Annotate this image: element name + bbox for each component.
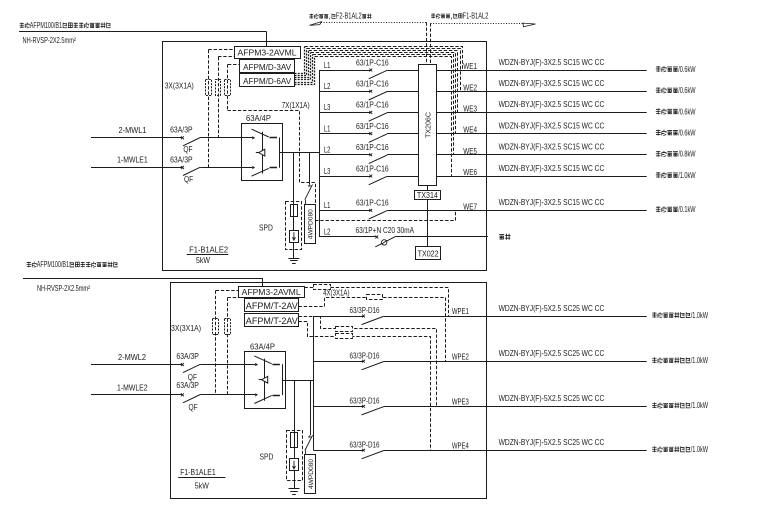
svg-text:63A/4P: 63A/4P bbox=[246, 113, 271, 123]
svg-text:L2: L2 bbox=[324, 227, 331, 237]
svg-text:/0.8kW: /0.8kW bbox=[678, 150, 696, 159]
svg-text:3X(3X1A): 3X(3X1A) bbox=[165, 82, 194, 91]
svg-text:63/1P-C16: 63/1P-C16 bbox=[356, 80, 389, 89]
svg-text:*: * bbox=[308, 433, 312, 444]
svg-text:AFPM/D-6AV: AFPM/D-6AV bbox=[243, 76, 291, 86]
svg-text:WDZN-BYJ(F)-3X2.5 SC15 WC CC: WDZN-BYJ(F)-3X2.5 SC15 WC CC bbox=[499, 79, 605, 88]
svg-text:F1-B1ALE2: F1-B1ALE2 bbox=[189, 245, 228, 254]
svg-text:AFPM3-2AVML: AFPM3-2AVML bbox=[242, 288, 301, 297]
svg-text:2-MWL1: 2-MWL1 bbox=[119, 125, 147, 135]
svg-text:63/1P-C16: 63/1P-C16 bbox=[356, 143, 389, 152]
svg-text:L1: L1 bbox=[324, 123, 331, 133]
svg-text:WDZN-BYJ(F)-3X2.5 SC15 WC CC: WDZN-BYJ(F)-3X2.5 SC15 WC CC bbox=[499, 121, 605, 130]
svg-text:1-MWLE2: 1-MWLE2 bbox=[117, 382, 148, 392]
svg-text:/1.0kW: /1.0kW bbox=[691, 401, 709, 410]
svg-text:3X(3X1A): 3X(3X1A) bbox=[171, 324, 201, 333]
svg-text:5kW: 5kW bbox=[195, 482, 209, 491]
svg-text:WPE3: WPE3 bbox=[452, 396, 469, 406]
svg-text:/0.6kW: /0.6kW bbox=[678, 107, 696, 116]
svg-text:63/1P-C16: 63/1P-C16 bbox=[356, 58, 389, 67]
svg-text:WDZN-BYJ(F)-5X2.5 SC25 WC CC: WDZN-BYJ(F)-5X2.5 SC25 WC CC bbox=[499, 438, 605, 447]
svg-text:WDZN-BYJ(F)-5X2.5 SC25 WC CC: WDZN-BYJ(F)-5X2.5 SC25 WC CC bbox=[499, 349, 605, 358]
svg-text:WDZN-BYJ(F)-5X2.5 SC25 WC CC: WDZN-BYJ(F)-5X2.5 SC25 WC CC bbox=[499, 304, 605, 313]
svg-text:L1: L1 bbox=[324, 60, 331, 70]
svg-text:4WPD080: 4WPD080 bbox=[308, 459, 315, 489]
svg-text:/1.0kW: /1.0kW bbox=[678, 171, 696, 180]
svg-text:4X(3X1A): 4X(3X1A) bbox=[323, 288, 350, 297]
svg-text:WPE1: WPE1 bbox=[452, 306, 469, 316]
svg-text:QF: QF bbox=[188, 372, 197, 382]
svg-text:QF: QF bbox=[189, 402, 198, 412]
svg-text:F1-B1ALE1: F1-B1ALE1 bbox=[180, 468, 216, 477]
svg-text:63/1P-C16: 63/1P-C16 bbox=[356, 199, 389, 208]
svg-text:AFPM/D-3AV: AFPM/D-3AV bbox=[243, 62, 291, 72]
svg-text:WDZN-BYJ(F)-3X2.5 SC15 WC CC: WDZN-BYJ(F)-3X2.5 SC15 WC CC bbox=[499, 198, 605, 207]
svg-text:WE1: WE1 bbox=[463, 61, 477, 71]
svg-text:63/1P-C16: 63/1P-C16 bbox=[356, 122, 389, 131]
svg-text:L3: L3 bbox=[324, 102, 331, 112]
svg-text:/0.6kW: /0.6kW bbox=[678, 65, 696, 74]
svg-text:63/1P-C16: 63/1P-C16 bbox=[356, 164, 389, 173]
svg-text:63/3P-D16: 63/3P-D16 bbox=[350, 306, 380, 315]
svg-text:63/1P+N C20 30mA: 63/1P+N C20 30mA bbox=[356, 226, 415, 235]
svg-text:63A/4P: 63A/4P bbox=[250, 341, 275, 351]
svg-text:/1.0kW: /1.0kW bbox=[691, 356, 709, 365]
svg-text:2-MWL2: 2-MWL2 bbox=[118, 352, 146, 362]
svg-text:/0.6kW: /0.6kW bbox=[678, 129, 696, 138]
svg-text:WE7: WE7 bbox=[463, 201, 477, 211]
svg-text:WPE2: WPE2 bbox=[452, 351, 469, 361]
svg-text:WDZN-BYJ(F)-3X2.5 SC15 WC CC: WDZN-BYJ(F)-3X2.5 SC15 WC CC bbox=[499, 143, 605, 152]
svg-text:/0.1kW: /0.1kW bbox=[678, 205, 696, 214]
svg-text:L2: L2 bbox=[324, 145, 331, 155]
svg-text:63/3P-D16: 63/3P-D16 bbox=[350, 351, 380, 360]
svg-text:F1-B1AL2: F1-B1AL2 bbox=[463, 11, 489, 20]
svg-text:WDZN-BYJ(F)-3X2.5 SC15 WC CC: WDZN-BYJ(F)-3X2.5 SC15 WC CC bbox=[499, 100, 605, 109]
svg-text:L1: L1 bbox=[324, 200, 331, 210]
svg-text:AFPM/T-2AV: AFPM/T-2AV bbox=[246, 316, 299, 327]
svg-text:,: , bbox=[450, 11, 452, 20]
svg-text:SPD: SPD bbox=[259, 223, 273, 233]
svg-text:AFPM100/B1: AFPM100/B1 bbox=[30, 21, 63, 30]
svg-text:WDZN-BYJ(F)-5X2.5 SC25 WC CC: WDZN-BYJ(F)-5X2.5 SC25 WC CC bbox=[499, 394, 605, 403]
svg-text:63A/3P: 63A/3P bbox=[170, 154, 193, 164]
svg-text:1-MWLE1: 1-MWLE1 bbox=[117, 155, 148, 165]
svg-text:63/1P-C16: 63/1P-C16 bbox=[356, 101, 389, 110]
svg-text:WPE4: WPE4 bbox=[452, 440, 469, 450]
svg-text:63/3P-D16: 63/3P-D16 bbox=[350, 440, 380, 449]
svg-text:TX206C: TX206C bbox=[424, 112, 433, 138]
svg-text:WDZN-BYJ(F)-3X2.5 SC15 WC CC: WDZN-BYJ(F)-3X2.5 SC15 WC CC bbox=[499, 164, 605, 173]
svg-text:WDZN-BYJ(F)-3X2.5 SC15 WC CC: WDZN-BYJ(F)-3X2.5 SC15 WC CC bbox=[499, 58, 605, 67]
svg-text:/0.6kW: /0.6kW bbox=[678, 86, 696, 95]
svg-text:WE3: WE3 bbox=[463, 104, 477, 114]
svg-text:4WPD080: 4WPD080 bbox=[308, 209, 315, 239]
svg-text:,: , bbox=[329, 12, 331, 21]
svg-text:QF: QF bbox=[183, 144, 192, 154]
svg-text:L3: L3 bbox=[324, 166, 331, 176]
svg-text:AFPM3-2AVML: AFPM3-2AVML bbox=[238, 48, 297, 57]
svg-text:63/3P-D16: 63/3P-D16 bbox=[350, 396, 380, 405]
svg-text:NH-RVSP-2X2.5mm²: NH-RVSP-2X2.5mm² bbox=[37, 284, 90, 293]
svg-text:/1.0kW: /1.0kW bbox=[691, 445, 709, 454]
svg-text:WE5: WE5 bbox=[463, 146, 477, 156]
svg-text:TX314: TX314 bbox=[417, 191, 439, 200]
svg-text:63A/3P: 63A/3P bbox=[170, 124, 193, 134]
svg-text:7X(1X1A): 7X(1X1A) bbox=[282, 101, 310, 110]
svg-text:WE6: WE6 bbox=[463, 167, 477, 177]
svg-text:5kW: 5kW bbox=[196, 256, 210, 265]
svg-text:TX022: TX022 bbox=[418, 249, 439, 258]
svg-text:NH-RVSP-2X2.5mm²: NH-RVSP-2X2.5mm² bbox=[23, 36, 76, 45]
svg-text:/1.0kW: /1.0kW bbox=[691, 311, 709, 320]
svg-text:WE4: WE4 bbox=[463, 125, 477, 135]
svg-text:AFPM100/B1: AFPM100/B1 bbox=[37, 260, 70, 269]
svg-text:63A/3P: 63A/3P bbox=[176, 351, 199, 361]
svg-text:WE2: WE2 bbox=[463, 82, 477, 92]
svg-text:AFPM/T-2AV: AFPM/T-2AV bbox=[246, 301, 299, 312]
svg-text:SPD: SPD bbox=[260, 452, 274, 462]
svg-text:F2-B1AL2: F2-B1AL2 bbox=[336, 12, 362, 21]
svg-text:*: * bbox=[308, 183, 312, 194]
svg-text:QF: QF bbox=[184, 174, 193, 184]
svg-text:L2: L2 bbox=[324, 81, 331, 91]
